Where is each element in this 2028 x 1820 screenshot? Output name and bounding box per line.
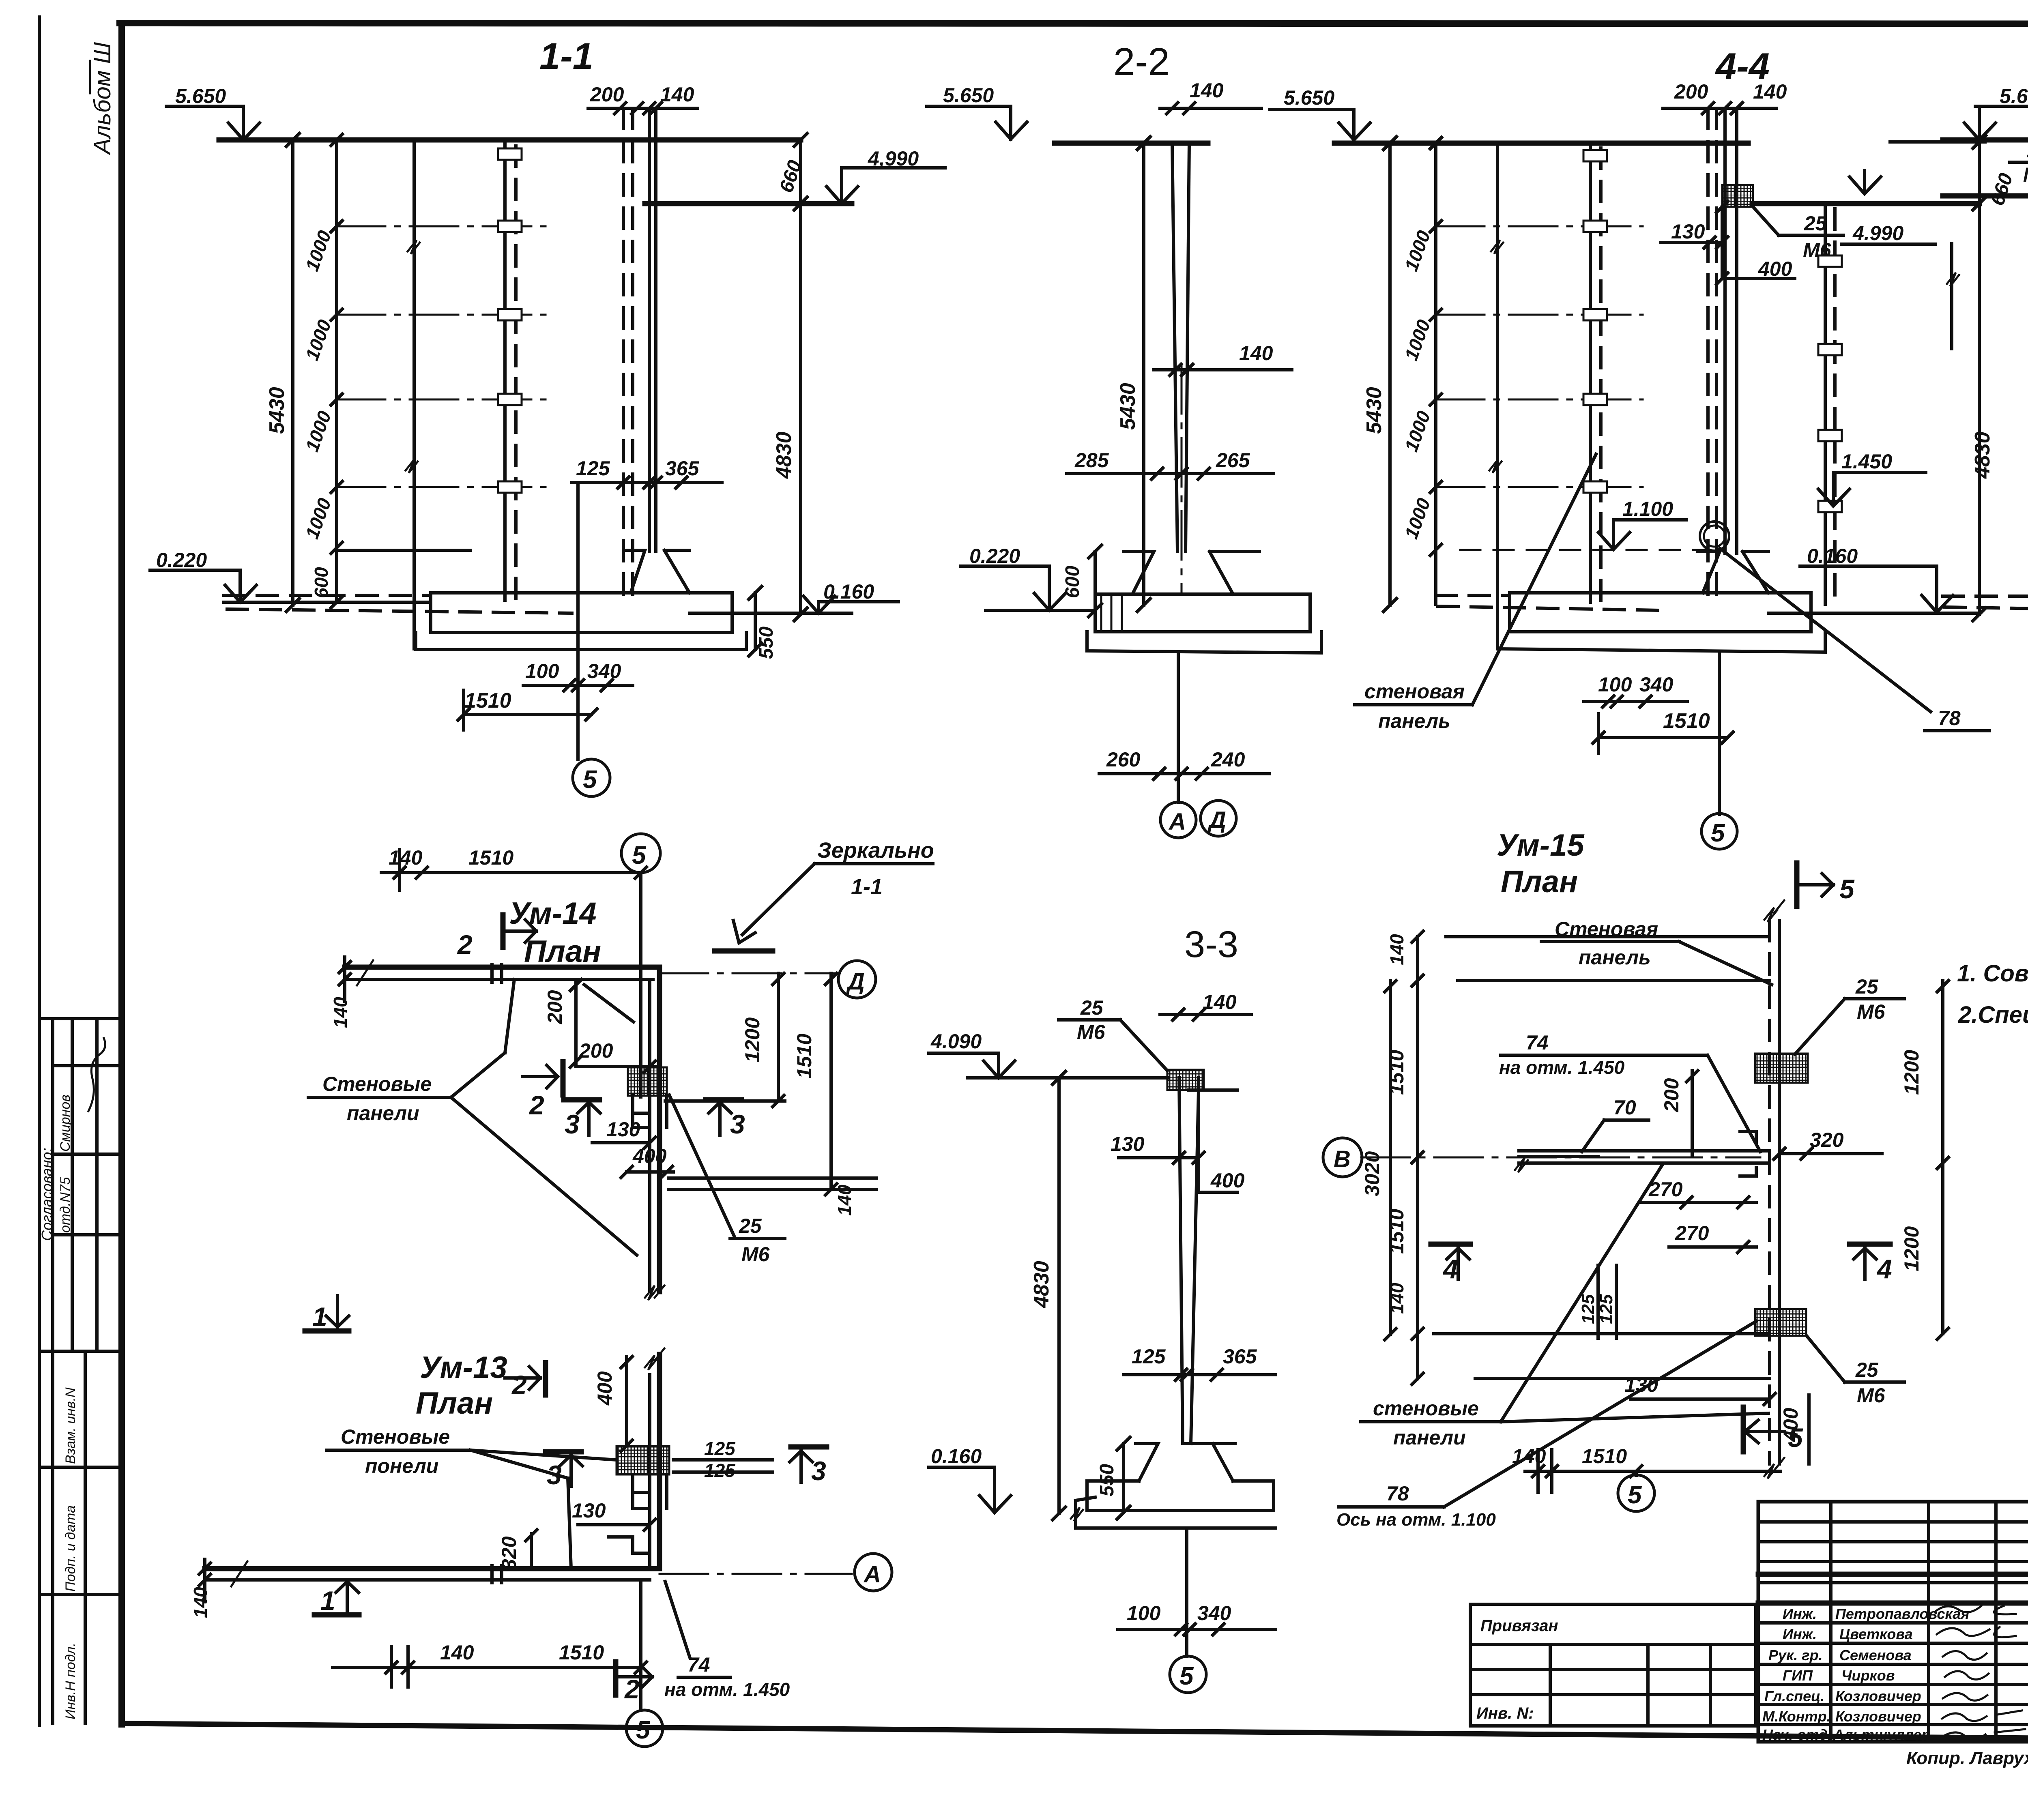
svg-text:140: 140	[190, 1587, 211, 1618]
svg-text:5: 5	[632, 841, 647, 869]
svg-text:140: 140	[834, 1185, 855, 1216]
svg-text:Смирнов: Смирнов	[58, 1095, 73, 1152]
hidden dashes ground	[1436, 594, 1510, 597]
ground line left	[986, 609, 1095, 612]
hidden dashes ground	[1943, 595, 2028, 598]
svg-text:5: 5	[1711, 819, 1725, 847]
svg-text:Гл.спец.: Гл.спец.	[1764, 1688, 1824, 1704]
svg-text:стеновые: стеновые	[1373, 1397, 1479, 1420]
svg-text:1200: 1200	[741, 1017, 764, 1062]
svg-text:200: 200	[1660, 1078, 1683, 1112]
svg-text:ГИП: ГИП	[1783, 1667, 1813, 1684]
svg-text:1.100: 1.100	[1622, 498, 1673, 520]
bolt plate upper	[1755, 1054, 1808, 1083]
axis circle А	[1160, 802, 1196, 838]
panel joint ticks	[490, 964, 494, 982]
svg-text:Стеновые: Стеновые	[341, 1425, 450, 1448]
frame left border	[118, 23, 125, 1724]
svg-text:320: 320	[498, 1536, 520, 1570]
centre axis line	[412, 140, 416, 649]
svg-text:5.650: 5.650	[1284, 86, 1334, 109]
svg-text:панель: панель	[1378, 710, 1450, 732]
svg-text:2: 2	[624, 1674, 640, 1704]
svg-text:0.220: 0.220	[969, 545, 1020, 567]
svg-text:понели: понели	[365, 1455, 438, 1477]
stem + axis circle 5	[1718, 652, 1721, 814]
signature rows names	[1762, 1605, 1969, 1743]
left stamp column grid	[39, 1017, 122, 1020]
svg-text:130: 130	[1671, 220, 1705, 243]
section mark 4 left	[1431, 1242, 1470, 1247]
svg-text:125: 125	[1578, 1294, 1598, 1324]
dim 5430	[1142, 143, 1145, 605]
svg-text:Петропавловская: Петропавловская	[1835, 1605, 1969, 1622]
dim 600	[1093, 552, 1097, 610]
svg-text:5.650: 5.650	[2000, 85, 2028, 107]
wall horizontal double lines	[205, 1566, 660, 1571]
lean concrete line	[416, 633, 746, 650]
column lines	[1179, 1078, 1183, 1444]
top line 5.650	[1943, 137, 2028, 143]
pipe sleeve circle	[1700, 522, 1729, 551]
svg-text:Инж.: Инж.	[1783, 1605, 1817, 1622]
footing slab	[431, 593, 732, 633]
svg-text:Инж.: Инж.	[1783, 1626, 1817, 1642]
panel joint ticks	[490, 1566, 494, 1583]
lean concrete line	[1087, 632, 1321, 653]
svg-text:Нач. отд.: Нач. отд.	[1762, 1726, 1832, 1743]
svg-text:25: 25	[1855, 1359, 1879, 1381]
svg-text:Альбом Ш: Альбом Ш	[89, 42, 116, 155]
svg-text:Альтшуллер: Альтшуллер	[1833, 1726, 1930, 1743]
title block outer box	[1758, 1502, 2028, 1742]
svg-text:200: 200	[544, 990, 566, 1024]
svg-text:5: 5	[1839, 874, 1855, 904]
dim 1510	[464, 713, 591, 716]
wall axis	[1181, 365, 1183, 592]
dim 5430 line	[291, 140, 294, 605]
svg-text:125: 125	[704, 1438, 736, 1459]
axis line to А	[660, 1573, 852, 1575]
axis circle Д	[838, 961, 876, 998]
svg-text:М6: М6	[1077, 1021, 1106, 1043]
monolith wall solid pair	[648, 108, 651, 552]
svg-text:М6: М6	[1857, 1000, 1886, 1023]
level line 4.990	[1752, 201, 1979, 206]
axis stem to circle	[576, 483, 580, 760]
bolt shaft	[633, 1474, 667, 1509]
dim 550	[1122, 1444, 1125, 1513]
svg-text:400: 400	[1758, 258, 1792, 280]
svg-text:365: 365	[665, 457, 700, 480]
svg-text:1510: 1510	[793, 1034, 816, 1079]
svg-text:140: 140	[330, 997, 351, 1028]
svg-text:340: 340	[587, 660, 621, 682]
svg-text:5.650: 5.650	[943, 84, 994, 107]
axis circle А	[855, 1554, 892, 1591]
svg-text:140: 140	[1753, 80, 1787, 103]
svg-text:Зеркально: Зеркально	[817, 838, 934, 863]
corner wall vertical (up)	[657, 1354, 662, 1569]
svg-text:М6: М6	[741, 1243, 770, 1266]
svg-text:260: 260	[1106, 748, 1141, 771]
bolt plate lower	[1755, 1309, 1806, 1336]
left end dim ticks	[343, 957, 346, 1002]
svg-text:Копир. Лаврухина: Копир. Лаврухина	[1906, 1748, 2028, 1768]
axis stem	[1185, 1528, 1188, 1657]
svg-text:Рук. гр.: Рук. гр.	[1768, 1647, 1823, 1663]
dim 550	[754, 593, 757, 650]
axis circle 5 top	[621, 834, 660, 873]
axis circle 5	[1170, 1656, 1206, 1693]
bottom lines	[1434, 1332, 1770, 1335]
panel clips	[498, 148, 522, 160]
svg-text:М6: М6	[1857, 1384, 1886, 1407]
svg-text:1510: 1510	[468, 846, 513, 869]
svg-text:200: 200	[1674, 80, 1708, 103]
level line 4.990 right side	[645, 201, 852, 206]
svg-text:5430: 5430	[1116, 383, 1140, 430]
svg-text:140: 140	[1386, 934, 1407, 965]
svg-text:1510: 1510	[1582, 1445, 1627, 1468]
bolt column detail	[633, 1096, 667, 1127]
monolith wall pair	[1723, 108, 1727, 554]
beam axis dash-dot	[1361, 1157, 1760, 1159]
wall top line	[1334, 141, 1748, 146]
section mark 5 bottom	[1741, 1407, 1746, 1452]
svg-text:285: 285	[1074, 449, 1109, 472]
bolt plate hatched	[1167, 1070, 1204, 1090]
svg-text:265: 265	[1216, 449, 1250, 472]
dim 1000 ticks line	[335, 140, 338, 602]
svg-text:25: 25	[739, 1215, 762, 1237]
frame bottom border	[122, 1723, 2028, 1742]
svg-text:400: 400	[1210, 1169, 1245, 1192]
svg-text:600: 600	[311, 567, 332, 598]
label 74 на отм. 1.450	[665, 1582, 690, 1657]
dim 125/365	[572, 481, 722, 484]
left grid verticals	[1829, 1502, 1833, 1742]
svg-text:Ум-13: Ум-13	[420, 1350, 507, 1385]
hidden slab dashed pair	[224, 594, 431, 597]
svg-text:1-1: 1-1	[539, 36, 593, 77]
svg-text:Стеновые: Стеновые	[322, 1073, 432, 1095]
svg-text:2: 2	[528, 1090, 544, 1120]
svg-text:365: 365	[1223, 1345, 1257, 1368]
svg-text:130: 130	[572, 1499, 606, 1522]
svg-text:3020: 3020	[1361, 1151, 1384, 1196]
svg-text:1510: 1510	[1663, 709, 1710, 733]
dim 4830	[1057, 1078, 1061, 1513]
svg-text:130: 130	[1111, 1133, 1145, 1155]
svg-text:Подп. и дата: Подп. и дата	[63, 1505, 78, 1592]
svg-text:200: 200	[590, 83, 624, 106]
svg-text:панели: панели	[347, 1102, 419, 1125]
svg-text:панели: панели	[1393, 1426, 1466, 1449]
wall end break	[357, 960, 373, 985]
svg-text:600: 600	[1062, 566, 1083, 598]
dim 1000 ticks	[1434, 143, 1437, 604]
dim 660/4830 right	[1978, 142, 1981, 614]
svg-text:Семенова: Семенова	[1839, 1647, 1912, 1663]
floor top line	[337, 549, 470, 552]
privyazan table	[1470, 1604, 1756, 1726]
wall panel solid	[503, 140, 507, 600]
svg-text:стеновая: стеновая	[1364, 680, 1465, 703]
corner chamfer line	[584, 985, 634, 1022]
svg-text:4: 4	[1442, 1254, 1458, 1284]
signature squiggles	[1935, 1606, 2025, 1740]
frame top border	[120, 23, 2028, 24]
svg-text:Д: Д	[1207, 807, 1226, 833]
ground line 0.220	[224, 601, 431, 604]
beam double lines at 1.450	[1519, 1149, 1770, 1153]
slab hatch	[1101, 594, 1122, 632]
svg-text:70: 70	[1613, 1096, 1636, 1119]
wall panel solid+dashed	[1589, 143, 1592, 602]
svg-text:3-3: 3-3	[1184, 924, 1238, 965]
level lines dash-dot	[337, 225, 546, 227]
lean line	[1497, 632, 1825, 652]
dim 400	[1721, 207, 1724, 279]
axis stem	[1177, 653, 1180, 802]
svg-text:5: 5	[1628, 1481, 1642, 1509]
dashed level 1.100	[1460, 549, 1706, 551]
svg-text:130: 130	[1624, 1374, 1658, 1396]
footing pedestal	[625, 550, 690, 593]
wall top line	[1055, 141, 1208, 146]
svg-text:отд.N75: отд.N75	[58, 1177, 73, 1233]
svg-text:0.220: 0.220	[156, 549, 207, 571]
svg-text:Д: Д	[846, 968, 865, 995]
svg-text:Ось на отм. 1.100: Ось на отм. 1.100	[1336, 1510, 1496, 1530]
svg-text:3: 3	[811, 1456, 826, 1486]
svg-text:4.990: 4.990	[1852, 222, 1903, 245]
svg-text:320: 320	[1810, 1129, 1844, 1151]
section marks 3	[564, 1097, 599, 1103]
wall top line 5.650	[219, 137, 801, 143]
svg-text:1.450: 1.450	[1841, 450, 1892, 473]
svg-text:400: 400	[593, 1371, 616, 1406]
svg-text:2: 2	[511, 1370, 527, 1400]
top lines	[1446, 935, 1770, 938]
left break mark	[1947, 273, 1959, 286]
right panel wall	[1824, 204, 1827, 604]
hidden dashes	[1706, 108, 1710, 596]
wall end break	[231, 1561, 247, 1586]
footing slab	[1087, 1481, 1274, 1511]
svg-text:340: 340	[1197, 1602, 1231, 1625]
svg-text:125: 125	[1132, 1345, 1166, 1368]
svg-text:Инв.Н подл.: Инв.Н подл.	[63, 1643, 78, 1719]
axis circle 5 bottom	[1635, 1471, 1638, 1475]
svg-text:1510: 1510	[559, 1641, 604, 1664]
svg-text:5: 5	[636, 1716, 651, 1744]
top stub right	[1890, 140, 1985, 144]
svg-text:4830: 4830	[1030, 1261, 1053, 1308]
svg-text:А: А	[863, 1561, 881, 1588]
svg-text:340: 340	[1639, 673, 1674, 696]
svg-text:Привязан: Привязан	[1480, 1617, 1558, 1635]
svg-text:200: 200	[579, 1039, 613, 1062]
svg-text:на отм. 1.450: на отм. 1.450	[1499, 1057, 1625, 1078]
svg-text:М6: М6	[2023, 163, 2028, 186]
hidden panel dashed pair	[622, 108, 625, 600]
svg-text:4: 4	[1876, 1254, 1892, 1284]
svg-text:План: План	[416, 1386, 493, 1421]
dim 5430	[1388, 143, 1392, 605]
leader to 78	[1720, 548, 1931, 712]
left grid rows	[1758, 1520, 2028, 1524]
svg-text:на отм. 1.450: на отм. 1.450	[664, 1679, 790, 1700]
svg-text:240: 240	[1211, 748, 1245, 771]
svg-text:М.Контр.: М.Контр.	[1762, 1708, 1831, 1725]
axis circle В	[1323, 1138, 1362, 1177]
wall run line 4.990	[1943, 193, 2028, 199]
left end dim	[203, 1559, 206, 1602]
svg-text:100: 100	[1127, 1602, 1161, 1625]
lines for 3-3 cut	[668, 1176, 876, 1180]
svg-text:25: 25	[1855, 975, 1879, 998]
dim 660 + 4830 right line	[799, 140, 802, 614]
bolt plate top	[1722, 185, 1753, 207]
section mark 4 right	[1850, 1242, 1890, 1247]
svg-text:5: 5	[1788, 1423, 1803, 1453]
svg-text:Козловичер: Козловичер	[1835, 1688, 1921, 1704]
svg-text:78: 78	[1386, 1482, 1409, 1505]
svg-text:2-2: 2-2	[1113, 40, 1170, 84]
svg-text:Цветкова: Цветкова	[1839, 1626, 1913, 1642]
svg-text:140: 140	[1190, 79, 1224, 102]
ground line 0.160	[1768, 612, 1979, 615]
corner wall vertical	[657, 967, 662, 1292]
svg-text:Козловичер: Козловичер	[1835, 1708, 1921, 1725]
svg-text:Ум-14: Ум-14	[509, 896, 597, 931]
axis circle 5	[573, 759, 610, 796]
svg-text:140: 140	[660, 83, 694, 106]
ground line 0.160	[690, 612, 852, 615]
wall panel dashed	[514, 146, 518, 600]
svg-text:1510: 1510	[1385, 1050, 1408, 1095]
bolt plate hatched	[617, 1446, 669, 1474]
svg-text:125: 125	[576, 457, 610, 480]
wall horizontal double lines	[345, 965, 660, 970]
svg-text:панель: панель	[1579, 946, 1651, 969]
svg-text:5: 5	[1179, 1662, 1194, 1690]
svg-text:Взам. инв.N: Взам. инв.N	[63, 1387, 78, 1464]
svg-text:1510: 1510	[1385, 1209, 1408, 1254]
axis circle Д	[1201, 801, 1236, 836]
svg-text:1-1: 1-1	[851, 875, 883, 899]
svg-text:140: 140	[440, 1641, 474, 1664]
section marks 3	[546, 1449, 581, 1455]
svg-text:140: 140	[1512, 1445, 1546, 1468]
vertical wall: dashed + solid	[1768, 921, 1771, 1464]
centre axis	[1496, 143, 1499, 649]
svg-text:1510: 1510	[464, 689, 511, 713]
footing pedestal	[1136, 1444, 1235, 1481]
svg-text:400: 400	[632, 1145, 667, 1168]
svg-text:5: 5	[583, 766, 597, 794]
stem + axis circle 5 bottom	[639, 1580, 642, 1711]
dim 100/340	[523, 684, 633, 687]
svg-text:25: 25	[1080, 996, 1104, 1019]
footing slab	[1510, 593, 1811, 632]
section mark 5 top	[1794, 863, 1800, 906]
svg-text:1200: 1200	[1900, 1226, 1923, 1271]
svg-text:Согласовано:: Согласовано:	[39, 1148, 55, 1241]
panel clips	[1583, 150, 1607, 161]
page edge thin line	[38, 17, 41, 1726]
footing pedestal	[1697, 552, 1768, 593]
label 25/M6	[669, 1095, 734, 1236]
svg-text:140: 140	[1239, 342, 1273, 365]
svg-text:4830: 4830	[772, 431, 796, 479]
svg-text:1. Совместно с данным см. л.л: 1. Совместно с данным см. л.л. КЖ-16, 33…	[1957, 960, 2028, 987]
svg-text:140: 140	[1203, 991, 1237, 1013]
top line	[967, 1076, 1168, 1080]
chamfer detail at corner	[608, 1537, 650, 1553]
svg-text:2: 2	[457, 929, 473, 959]
svg-text:74: 74	[1526, 1031, 1549, 1054]
svg-text:1200: 1200	[1900, 1050, 1923, 1095]
bolt plate hatched	[628, 1067, 667, 1096]
level dash-dot lines	[1436, 225, 1643, 227]
top dim 200/140	[588, 107, 698, 110]
svg-text:0.160: 0.160	[1807, 545, 1858, 567]
svg-text:2.Спецификация элементов см.: 2.Спецификация элементов см. л. КЖ-28.	[1958, 1002, 2028, 1028]
svg-text:А: А	[1168, 809, 1186, 835]
svg-text:4.090: 4.090	[930, 1030, 982, 1053]
svg-text:5430: 5430	[265, 387, 289, 434]
joint detail at beam end	[1740, 1131, 1756, 1176]
svg-text:Ум-15: Ум-15	[1497, 828, 1585, 863]
svg-text:100: 100	[1598, 673, 1632, 696]
svg-text:270: 270	[1675, 1222, 1709, 1245]
axis line to Д	[660, 972, 836, 974]
footing pedestal	[1124, 552, 1259, 594]
svg-text:4830: 4830	[1971, 431, 1994, 479]
svg-text:5.650: 5.650	[175, 85, 226, 107]
lean line with break	[1076, 1497, 1276, 1528]
svg-text:План: План	[524, 934, 601, 969]
svg-text:130: 130	[606, 1118, 640, 1141]
svg-text:1: 1	[320, 1586, 335, 1616]
svg-text:100: 100	[525, 660, 559, 682]
svg-text:550: 550	[756, 627, 777, 659]
svg-text:74: 74	[687, 1653, 710, 1676]
svg-text:План: План	[1501, 865, 1578, 899]
svg-text:0.160: 0.160	[931, 1445, 982, 1468]
footing slab	[1095, 594, 1310, 632]
svg-text:5430: 5430	[1362, 387, 1386, 434]
svg-text:Чирков: Чирков	[1841, 1667, 1895, 1684]
svg-text:78: 78	[1938, 707, 1961, 730]
tapered wall lines	[1172, 143, 1177, 552]
svg-text:Инв. N:: Инв. N:	[1476, 1704, 1534, 1722]
svg-text:В: В	[1334, 1146, 1351, 1172]
